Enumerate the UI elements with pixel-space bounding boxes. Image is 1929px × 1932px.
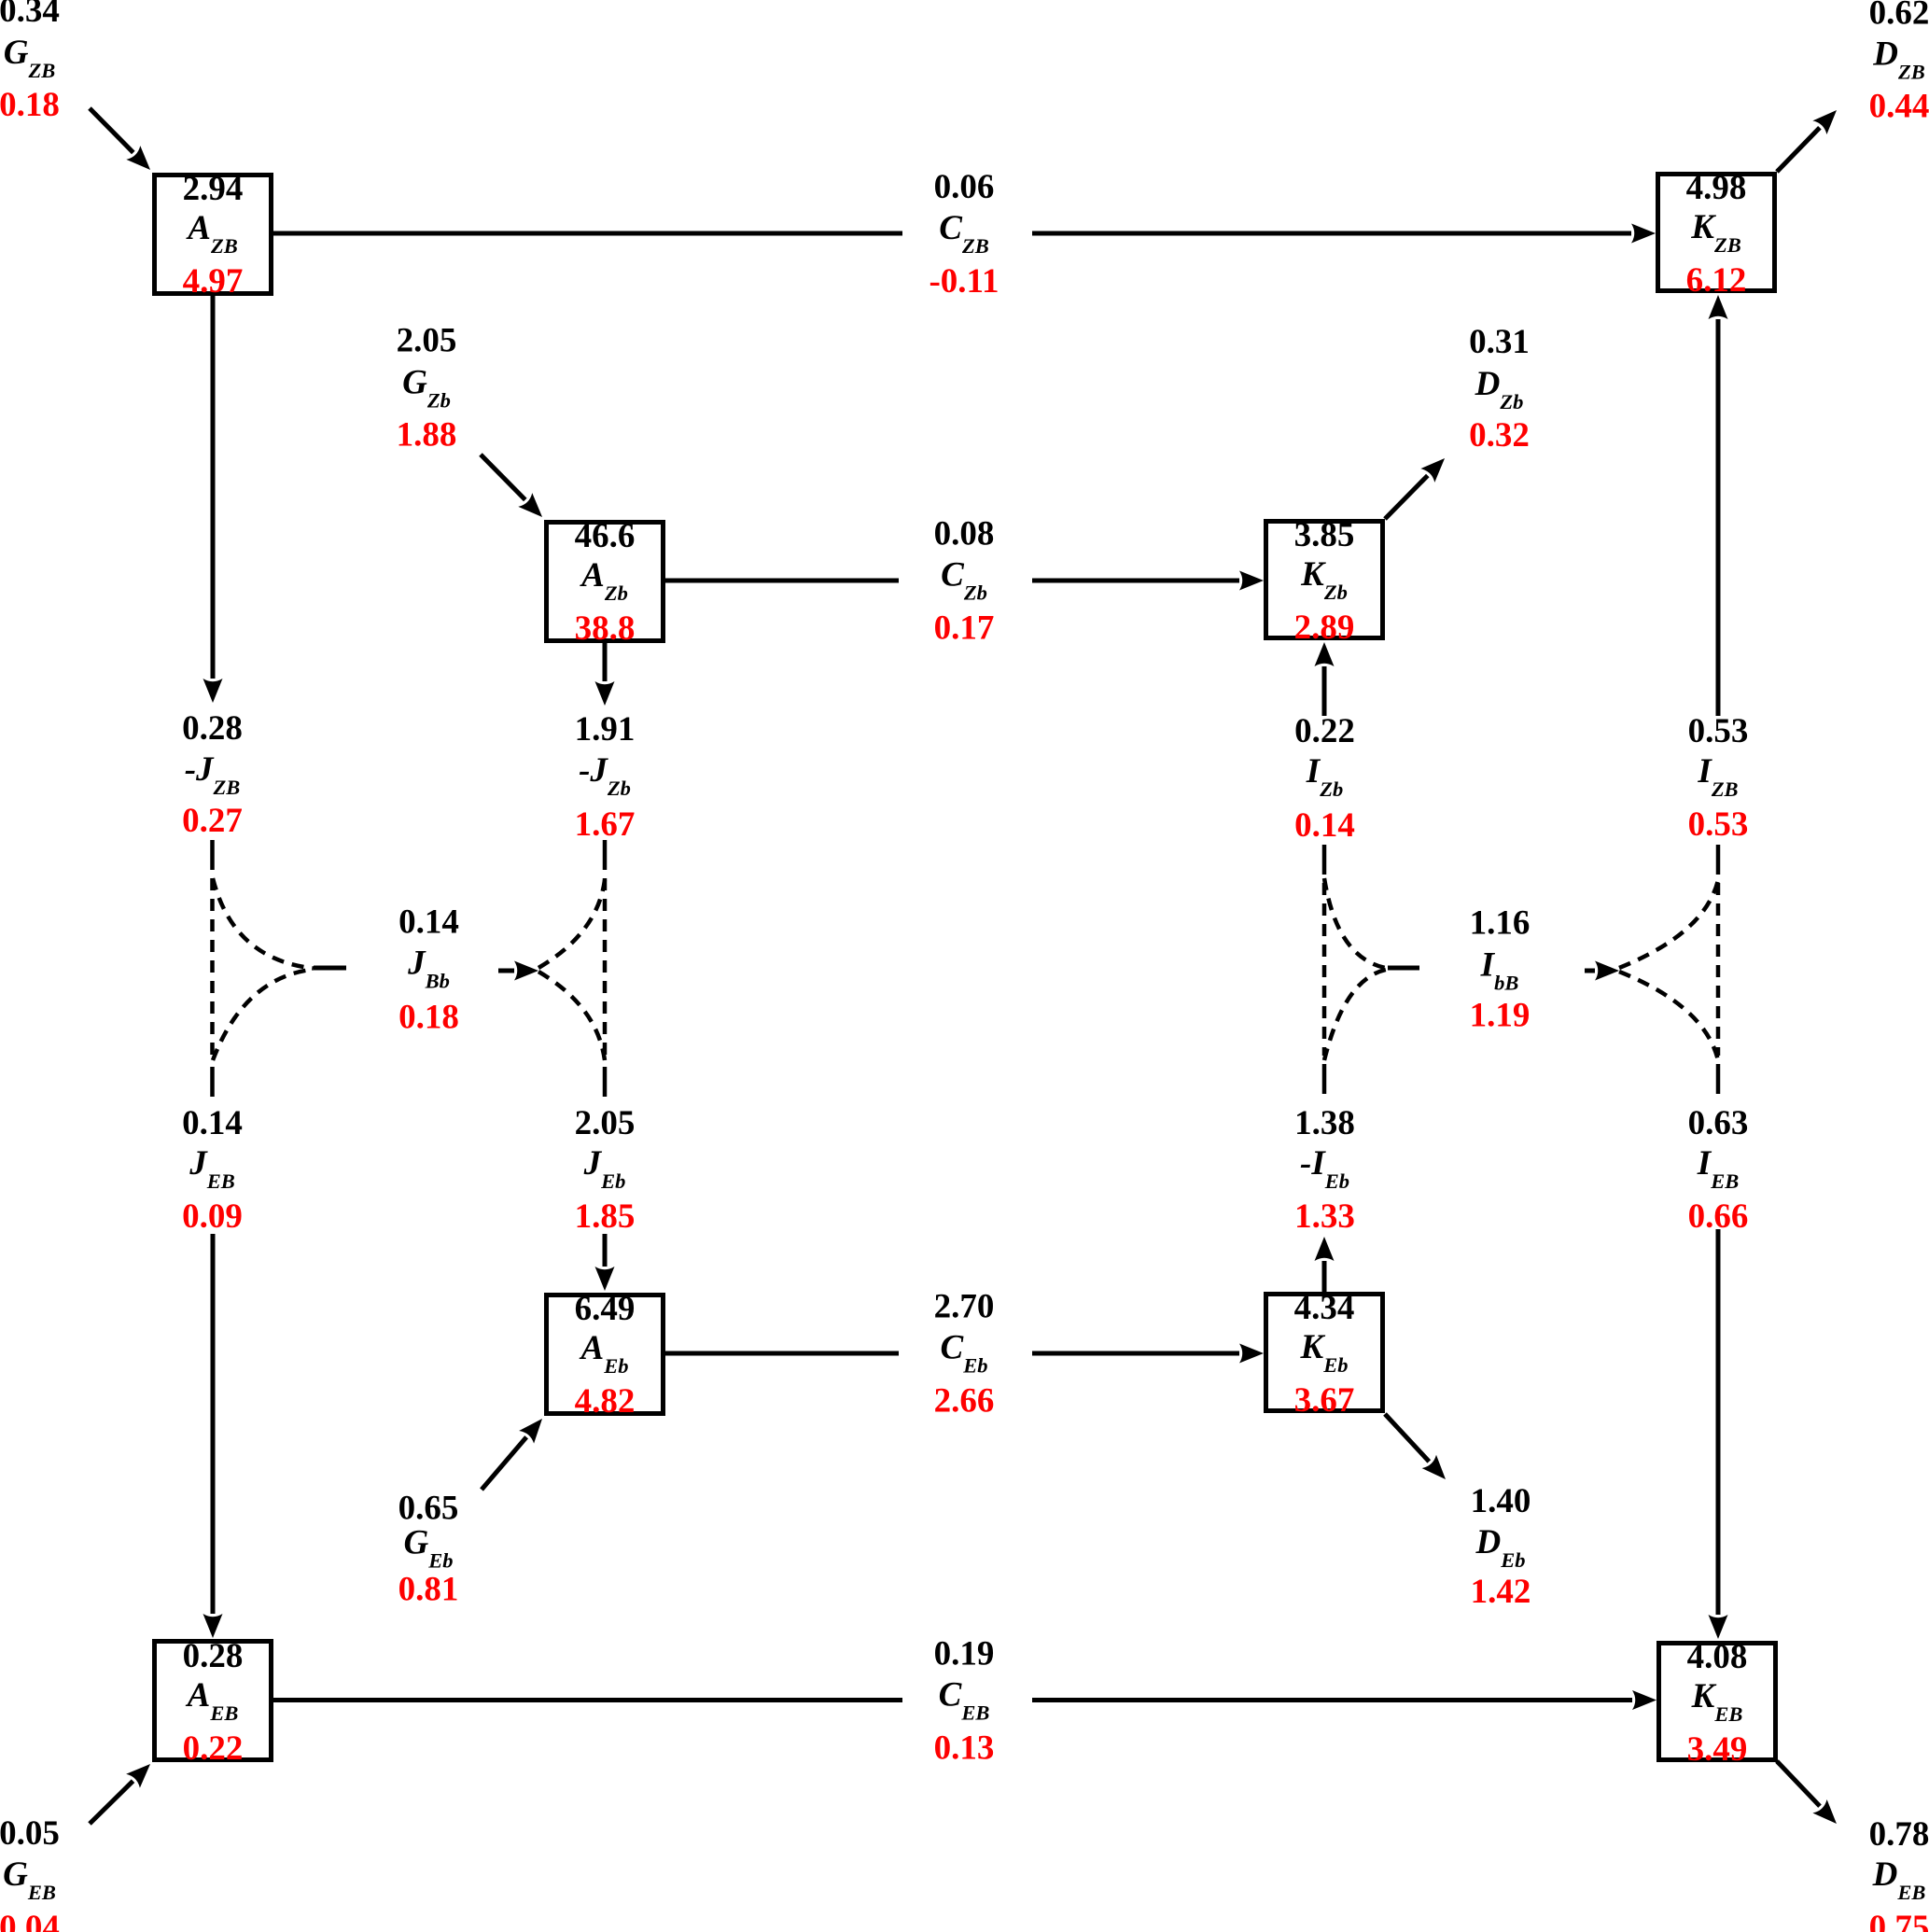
svg-text:0.17: 0.17 (934, 609, 995, 648)
svg-text:0.14: 0.14 (182, 1104, 243, 1142)
svg-text:0.18: 0.18 (398, 999, 459, 1037)
svg-text:1.91: 1.91 (575, 710, 636, 749)
svg-text:0.06: 0.06 (934, 168, 995, 206)
svg-text:0.22: 0.22 (183, 1729, 244, 1768)
svg-text:0.63: 0.63 (1688, 1104, 1749, 1142)
svg-text:3.49: 3.49 (1687, 1730, 1748, 1769)
svg-text:0.04: 0.04 (0, 1909, 60, 1932)
svg-text:0.53: 0.53 (1688, 712, 1749, 750)
svg-text:0.19: 0.19 (934, 1635, 995, 1673)
svg-text:2.70: 2.70 (934, 1288, 995, 1326)
svg-text:4.98: 4.98 (1686, 169, 1747, 207)
svg-text:46.6: 46.6 (575, 517, 636, 555)
svg-text:0.14: 0.14 (1294, 806, 1355, 845)
svg-text:0.18: 0.18 (0, 86, 60, 124)
svg-text:3.67: 3.67 (1294, 1381, 1355, 1420)
svg-text:0.81: 0.81 (398, 1571, 459, 1609)
svg-text:0.75: 0.75 (1869, 1909, 1929, 1932)
svg-text:3.85: 3.85 (1294, 516, 1355, 554)
svg-text:2.66: 2.66 (934, 1382, 995, 1421)
svg-text:1.67: 1.67 (575, 805, 636, 844)
svg-text:4.08: 4.08 (1687, 1638, 1748, 1676)
svg-text:0.34: 0.34 (0, 0, 60, 30)
svg-text:0.09: 0.09 (182, 1197, 243, 1236)
svg-text:4.82: 4.82 (575, 1382, 636, 1421)
svg-text:1.85: 1.85 (575, 1197, 636, 1236)
svg-text:0.27: 0.27 (182, 802, 243, 840)
svg-text:1.88: 1.88 (397, 416, 457, 455)
svg-text:1.16: 1.16 (1470, 904, 1531, 943)
svg-text:0.13: 0.13 (934, 1729, 995, 1768)
svg-text:2.94: 2.94 (183, 170, 244, 208)
svg-text:1.38: 1.38 (1294, 1104, 1355, 1142)
svg-text:4.97: 4.97 (183, 262, 244, 301)
svg-text:0.65: 0.65 (398, 1490, 459, 1528)
svg-text:2.05: 2.05 (397, 322, 457, 360)
svg-text:1.40: 1.40 (1471, 1482, 1531, 1520)
svg-text:0.32: 0.32 (1469, 416, 1530, 455)
svg-text:0.78: 0.78 (1869, 1815, 1929, 1854)
svg-text:0.44: 0.44 (1869, 88, 1929, 126)
svg-text:0.08: 0.08 (934, 515, 995, 553)
svg-text:1.33: 1.33 (1294, 1197, 1355, 1236)
svg-text:0.05: 0.05 (0, 1814, 60, 1853)
svg-text:4.34: 4.34 (1294, 1289, 1355, 1327)
svg-text:0.28: 0.28 (183, 1637, 244, 1675)
svg-text:2.89: 2.89 (1294, 609, 1355, 647)
svg-text:0.62: 0.62 (1869, 0, 1929, 33)
svg-text:0.66: 0.66 (1688, 1197, 1749, 1236)
svg-text:38.8: 38.8 (575, 609, 636, 648)
svg-text:1.19: 1.19 (1470, 997, 1531, 1035)
svg-text:0.53: 0.53 (1688, 805, 1749, 844)
svg-text:0.14: 0.14 (398, 903, 459, 942)
svg-text:0.22: 0.22 (1294, 712, 1355, 750)
svg-text:0.31: 0.31 (1469, 323, 1530, 361)
svg-text:6.12: 6.12 (1686, 261, 1747, 300)
svg-text:2.05: 2.05 (575, 1104, 636, 1142)
svg-text:-0.11: -0.11 (929, 262, 999, 301)
svg-text:1.42: 1.42 (1471, 1573, 1531, 1611)
svg-text:0.28: 0.28 (182, 709, 243, 748)
svg-text:6.49: 6.49 (575, 1290, 636, 1328)
